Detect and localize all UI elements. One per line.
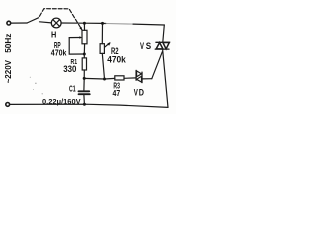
svg-text:V: V [134,88,138,98]
svg-text:47: 47 [113,88,121,98]
svg-text:470k: 470k [107,54,126,64]
svg-text:0.22μ/160V: 0.22μ/160V [42,97,81,106]
svg-text:C1: C1 [69,85,76,94]
svg-text:S: S [146,41,152,51]
svg-text:~220V: ~220V [4,59,13,83]
svg-text:H: H [51,29,56,39]
svg-text:50Hz: 50Hz [4,34,13,53]
svg-text:V: V [140,41,144,51]
svg-text:D: D [139,88,145,98]
svg-text:470k: 470k [51,47,67,57]
svg-text:330: 330 [63,64,76,74]
